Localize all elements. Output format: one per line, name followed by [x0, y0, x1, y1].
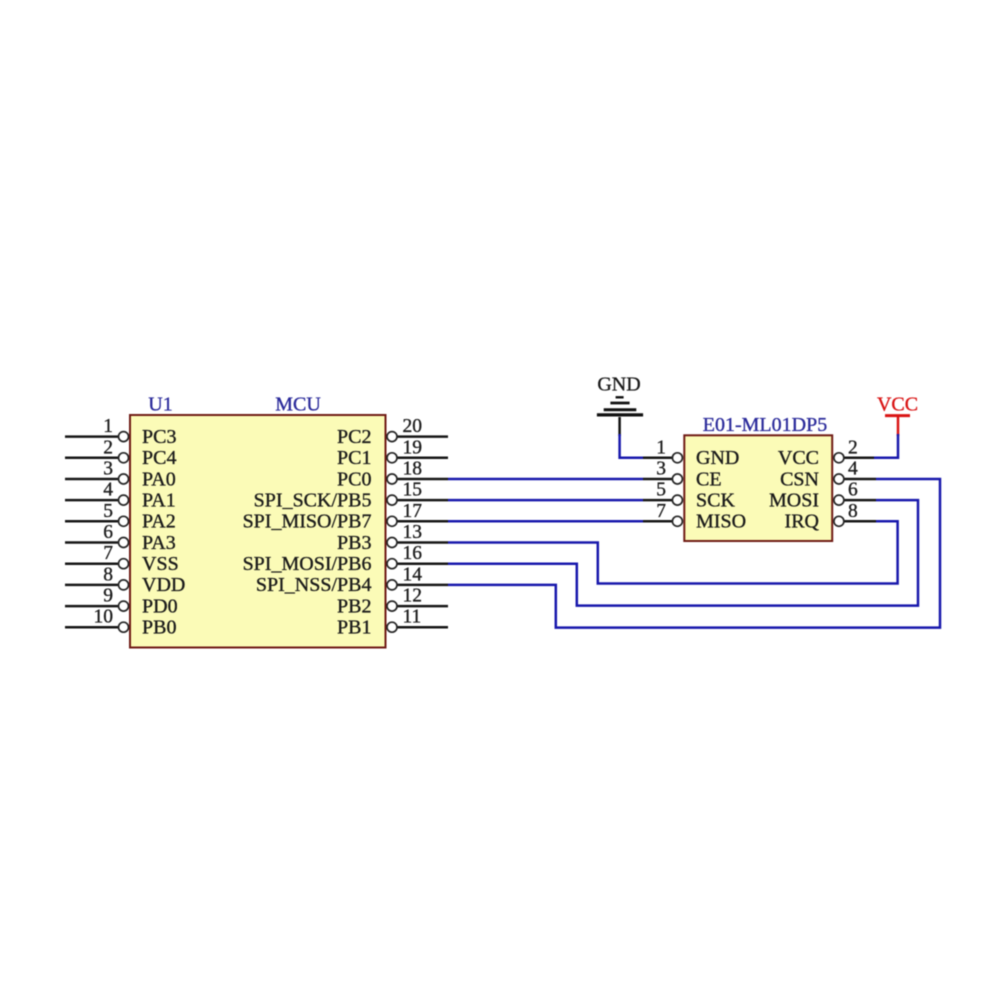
- module pin 1 GND: [643, 437, 739, 469]
- svg-text:PB3: PB3: [337, 532, 371, 554]
- svg-text:19: 19: [403, 437, 423, 458]
- U1 pin 11 PB1: [337, 607, 448, 639]
- svg-text:17: 17: [403, 501, 423, 522]
- svg-text:14: 14: [403, 564, 423, 585]
- U1 pin 6 PA3: [65, 522, 176, 554]
- svg-text:E01-ML01DP5: E01-ML01DP5: [703, 414, 827, 436]
- svg-text:PA0: PA0: [142, 468, 176, 490]
- svg-text:PA3: PA3: [142, 532, 176, 554]
- svg-text:SPI_MISO/PB7: SPI_MISO/PB7: [243, 511, 372, 533]
- svg-text:10: 10: [94, 607, 114, 628]
- module pin 5 SCK: [643, 480, 735, 512]
- wire U1 pin 16 SPI_MOSI to module pin 6 MOSI: [448, 500, 918, 605]
- svg-text:VSS: VSS: [142, 553, 179, 575]
- svg-text:MCU: MCU: [275, 394, 321, 416]
- svg-text:8: 8: [103, 564, 113, 585]
- wire VCC to module pin 2: [874, 434, 898, 458]
- U1 pin 8 VDD: [65, 564, 185, 596]
- U1 pin 12 PB2: [337, 586, 448, 618]
- svg-text:12: 12: [403, 586, 423, 607]
- svg-text:3: 3: [656, 459, 666, 480]
- svg-text:PB0: PB0: [142, 617, 176, 639]
- svg-text:7: 7: [656, 501, 666, 522]
- svg-text:20: 20: [403, 416, 423, 437]
- svg-text:PC3: PC3: [142, 426, 176, 448]
- U1 pin 19 PC1: [337, 437, 448, 469]
- svg-text:6: 6: [103, 522, 113, 543]
- svg-text:18: 18: [403, 459, 423, 480]
- svg-text:IRQ: IRQ: [785, 511, 820, 533]
- svg-text:PC0: PC0: [337, 468, 371, 490]
- svg-text:2: 2: [103, 437, 113, 458]
- svg-text:PB1: PB1: [337, 617, 371, 639]
- svg-text:3: 3: [103, 459, 113, 480]
- U1 pin 7 VSS: [65, 543, 179, 575]
- svg-text:6: 6: [848, 480, 858, 501]
- svg-text:VCC: VCC: [877, 394, 918, 416]
- svg-text:4: 4: [103, 480, 113, 501]
- svg-text:7: 7: [103, 543, 113, 564]
- module pin 8 IRQ: [785, 501, 876, 533]
- svg-text:SPI_MOSI/PB6: SPI_MOSI/PB6: [243, 553, 372, 575]
- svg-text:U1: U1: [148, 394, 172, 416]
- U1 pin 1 PC3: [65, 416, 176, 448]
- svg-text:MOSI: MOSI: [769, 489, 819, 511]
- svg-text:GND: GND: [597, 374, 640, 396]
- svg-text:9: 9: [103, 586, 113, 607]
- svg-text:VCC: VCC: [778, 447, 819, 469]
- svg-text:1: 1: [656, 437, 666, 458]
- U1 pin 10 PB0: [65, 607, 176, 639]
- svg-text:SPI_SCK/PB5: SPI_SCK/PB5: [254, 489, 372, 511]
- svg-text:PC4: PC4: [142, 447, 176, 469]
- U1 pin 3 PA0: [65, 459, 176, 491]
- U1 pin 20 PC2: [337, 416, 448, 448]
- svg-text:SPI_NSS/PB4: SPI_NSS/PB4: [256, 574, 372, 596]
- module E01-ML01DP5 body: [684, 435, 832, 541]
- svg-text:MISO: MISO: [696, 511, 746, 533]
- wire U1 pin 15 SPI_SCK to module pin 5 SCK: [448, 499, 643, 502]
- svg-text:VDD: VDD: [142, 574, 185, 596]
- IC U1 MCU body: [130, 415, 386, 648]
- svg-text:PC2: PC2: [337, 426, 371, 448]
- svg-text:CSN: CSN: [780, 468, 819, 490]
- U1 pin 15 SPI_SCK/PB5: [254, 480, 448, 512]
- wire GND to module pin 1: [620, 434, 643, 458]
- svg-text:11: 11: [403, 607, 422, 628]
- U1 pin 13 PB3: [337, 522, 448, 554]
- wire U1 pin 18 PC0 to module pin 3 CE: [448, 478, 643, 481]
- svg-text:PA2: PA2: [142, 511, 176, 533]
- module pin 7 MISO: [643, 501, 746, 533]
- svg-text:16: 16: [403, 543, 423, 564]
- wire U1 pin 17 SPI_MISO to module pin 7 MISO: [448, 520, 643, 523]
- module pin 3 CE: [643, 459, 722, 491]
- U1 pin 17 SPI_MISO/PB7: [243, 501, 448, 533]
- module pin 2 VCC: [778, 437, 876, 469]
- svg-text:PB2: PB2: [337, 595, 371, 617]
- module pin 6 MOSI: [769, 480, 876, 512]
- svg-text:13: 13: [403, 522, 423, 543]
- module pin 4 CSN: [780, 459, 876, 491]
- power symbol VCC: [877, 394, 918, 437]
- svg-text:4: 4: [848, 459, 858, 480]
- svg-text:15: 15: [403, 480, 423, 501]
- U1 pin 2 PC4: [65, 437, 176, 469]
- svg-text:5: 5: [656, 480, 666, 501]
- ground symbol GND: [597, 374, 643, 437]
- svg-text:CE: CE: [696, 468, 722, 490]
- wire U1 pin 13 PB3 to module pin 8 IRQ: [448, 521, 898, 583]
- svg-text:5: 5: [103, 501, 113, 522]
- svg-text:PC1: PC1: [337, 447, 371, 469]
- svg-text:PA1: PA1: [142, 489, 176, 511]
- U1 pin 5 PA2: [65, 501, 176, 533]
- svg-text:2: 2: [848, 437, 858, 458]
- svg-text:1: 1: [103, 416, 113, 437]
- svg-text:GND: GND: [696, 447, 739, 469]
- wire U1 pin 14 SPI_NSS to module pin 4 CSN: [448, 479, 940, 628]
- U1 pin 16 SPI_MOSI/PB6: [243, 543, 448, 575]
- U1 pin 18 PC0: [337, 459, 448, 491]
- U1 pin 9 PD0: [65, 586, 178, 618]
- svg-text:8: 8: [848, 501, 858, 522]
- svg-text:SCK: SCK: [696, 489, 735, 511]
- U1 pin 4 PA1: [65, 480, 176, 512]
- svg-text:PD0: PD0: [142, 595, 178, 617]
- U1 pin 14 SPI_NSS/PB4: [256, 564, 448, 596]
